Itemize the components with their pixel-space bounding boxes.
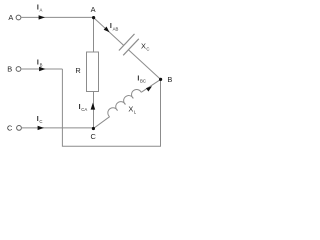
svg-text:CA: CA [81,107,87,112]
svg-text:R: R [75,66,80,75]
svg-text:AB: AB [113,26,119,31]
current arrow IA [39,15,45,19]
inductor XL coil [108,89,141,116]
svg-text:B: B [167,75,172,84]
capacitor XC plate 1 [119,34,135,51]
node B junction dot [159,78,162,81]
wire terminal C to node C [21,127,93,129]
svg-text:A: A [91,5,96,14]
current arrow ICA (up) [91,103,96,110]
wire lower plate to node B [128,50,160,80]
terminal C circle [17,126,22,131]
svg-text:C: C [7,123,13,132]
terminal B circle [16,67,21,72]
inductor branch: wire node C to coil [93,117,109,129]
svg-text:BC: BC [140,79,146,84]
svg-text:C: C [39,119,42,124]
resistor R body [87,52,99,92]
wire coil to node B [141,79,160,92]
svg-text:X: X [128,104,133,113]
svg-text:B: B [7,65,12,74]
svg-text:C: C [146,46,149,51]
wire terminal A to node A [21,16,94,18]
terminal A circle [16,15,21,20]
node A junction dot [92,16,95,19]
wire terminal B right [21,68,63,70]
svg-text:A: A [8,13,13,22]
wire resistor to node C [93,92,95,129]
current arrow IAB [104,27,110,33]
capacitor branch: wire A to upper plate [94,18,124,46]
wire node A down to resistor [93,18,95,52]
svg-text:L: L [134,110,137,115]
capacitor XC plate 2 [123,39,139,56]
svg-text:X: X [141,41,146,50]
current arrow IBC [146,86,152,91]
svg-text:B: B [40,63,43,68]
current arrow IB [39,67,45,71]
current arrow IC [38,126,44,130]
node C junction dot [92,127,95,130]
svg-text:A: A [40,7,43,12]
svg-text:C: C [91,132,97,141]
wire B around bottom to node B [62,69,160,146]
